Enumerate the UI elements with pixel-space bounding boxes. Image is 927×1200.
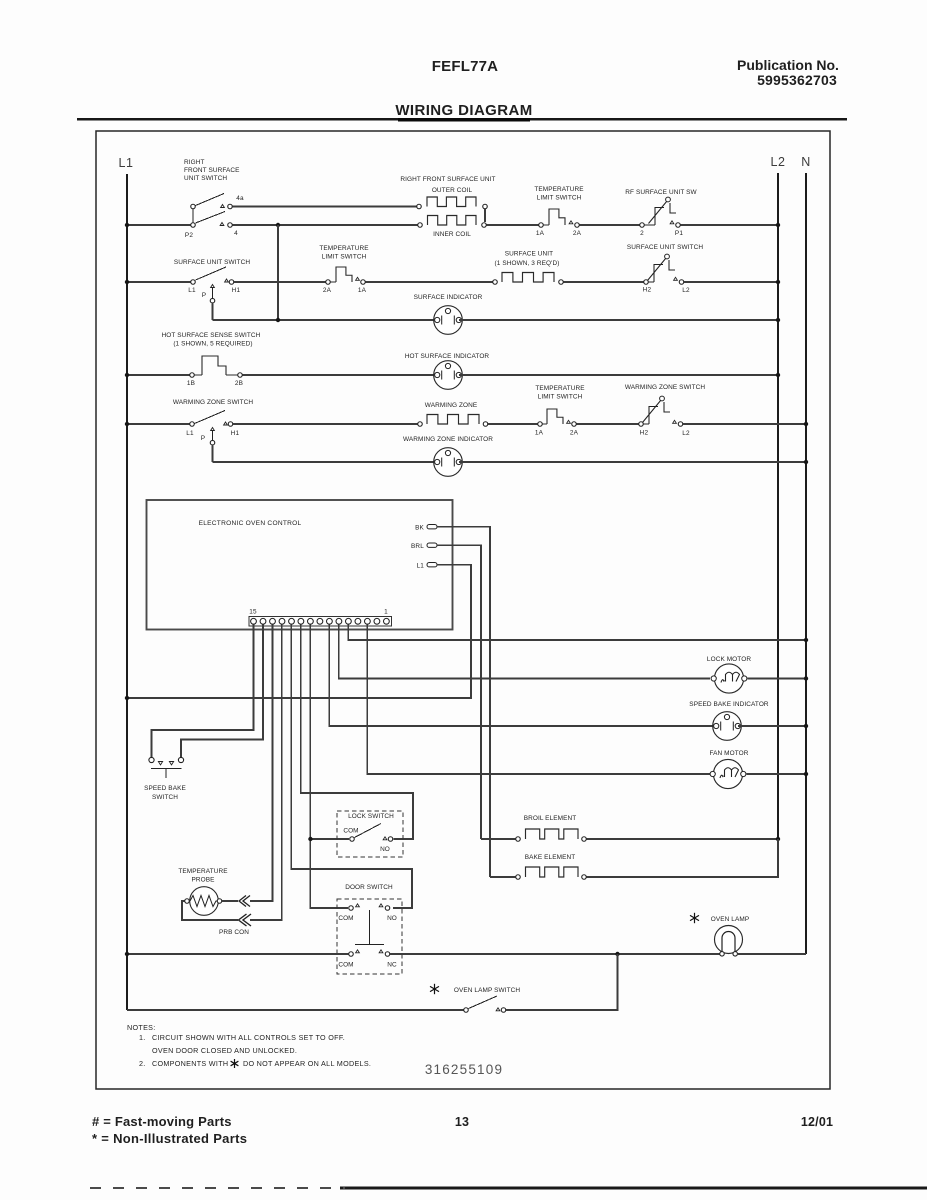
svg-text:P1: P1 <box>675 230 683 237</box>
wire row4 L1 bus to switch <box>127 423 189 425</box>
connector PRB CON upper chevron <box>239 896 250 907</box>
terminal strip <box>249 617 392 627</box>
motor fan motor <box>713 759 742 788</box>
wire L1 bus <box>126 174 128 1010</box>
svg-text:FEFL77A: FEFL77A <box>432 58 498 75</box>
svg-text:4a: 4a <box>236 195 244 202</box>
svg-text:NOTES:: NOTES: <box>127 1023 156 1032</box>
svg-text:RF SURFACE UNIT SW: RF SURFACE UNIT SW <box>625 189 697 196</box>
svg-text:P: P <box>201 435 206 442</box>
svg-text:4: 4 <box>234 230 238 237</box>
resistor bake element <box>516 875 521 880</box>
svg-text:H1: H1 <box>231 430 240 437</box>
svg-text:HOT SURFACE INDICATOR: HOT SURFACE INDICATOR <box>405 353 490 360</box>
svg-text:N: N <box>801 155 811 169</box>
wire row2 L1 bus to switch <box>127 281 190 283</box>
diagram border <box>96 131 830 1089</box>
wire P contact to warming indicator row <box>212 445 214 462</box>
svg-text:PROBE: PROBE <box>191 877 215 884</box>
wire indicator row right to L2 <box>459 319 778 321</box>
wire row1 L1 to P2 <box>127 224 191 226</box>
switch door switch upper contacts <box>349 906 354 911</box>
svg-text:2A: 2A <box>323 287 332 294</box>
svg-text:1.: 1. <box>139 1033 146 1042</box>
switch door switch lower contacts <box>349 952 354 957</box>
wire lamp row L1 bus to door switch <box>127 953 348 955</box>
svg-text:LIMIT SWITCH: LIMIT SWITCH <box>538 394 583 401</box>
svg-text:PRB CON: PRB CON <box>219 929 249 936</box>
svg-text:* = Non-Illustrated Parts: * = Non-Illustrated Parts <box>92 1131 247 1146</box>
wire indicator row left <box>278 319 437 321</box>
svg-text:SPEED BAKE: SPEED BAKE <box>144 785 186 792</box>
wire junction down to indicator row <box>277 225 279 320</box>
connector PRB CON lower chevron <box>239 914 252 926</box>
svg-text:NO: NO <box>387 915 397 922</box>
wire L2 bus <box>777 173 779 839</box>
lamp warming zone indicator <box>434 448 463 477</box>
wire H1 to warming zone coil <box>233 423 417 425</box>
lamp hot surface indicator <box>434 361 463 390</box>
svg-text:1B: 1B <box>187 380 195 387</box>
lamp speed bake indicator <box>713 712 742 741</box>
contact P stub row2 <box>211 285 215 288</box>
svg-text:2.: 2. <box>139 1059 146 1068</box>
svg-text:2: 2 <box>640 230 644 237</box>
svg-text:1A: 1A <box>535 430 544 437</box>
svg-text:TEMPERATURE: TEMPERATURE <box>319 245 369 252</box>
svg-text:NC: NC <box>387 962 397 969</box>
svg-text:13: 13 <box>455 1115 469 1129</box>
wire P1 to L2 bus <box>681 224 778 226</box>
motor lock motor <box>714 664 743 693</box>
svg-text:RIGHT FRONT SURFACE UNIT: RIGHT FRONT SURFACE UNIT <box>400 176 495 183</box>
svg-text:L2: L2 <box>682 430 690 437</box>
wire 4 to inner coil <box>233 224 418 226</box>
svg-text:UNIT SWITCH: UNIT SWITCH <box>184 175 227 182</box>
svg-text:LOCK SWITCH: LOCK SWITCH <box>348 813 394 820</box>
lamp oven lamp <box>715 926 743 954</box>
svg-text:HOT SURFACE SENSE SWITCH: HOT SURFACE SENSE SWITCH <box>162 332 261 339</box>
wire door switch NC to oven lamp <box>390 953 719 955</box>
switch temperature limit switch row4 <box>538 422 543 427</box>
svg-text:COM: COM <box>338 962 353 969</box>
svg-text:1: 1 <box>384 609 388 616</box>
wire row3 to L2 bus <box>459 374 778 376</box>
wire BK to bake element <box>490 876 515 878</box>
terminal pin 12 <box>279 618 285 624</box>
svg-text:WARMING ZONE SWITCH: WARMING ZONE SWITCH <box>625 384 706 391</box>
terminal pin 13 <box>270 618 276 624</box>
wire bake element to L2 junction <box>587 839 778 877</box>
title rule <box>77 118 847 120</box>
switch oven lamp switch label <box>434 984 436 994</box>
wire pin15 to speed bake switch <box>152 624 254 757</box>
wire BRL output <box>437 545 481 839</box>
contact P stub row4 <box>211 428 215 431</box>
svg-text:LIMIT SWITCH: LIMIT SWITCH <box>322 254 367 261</box>
svg-text:WIRING DIAGRAM: WIRING DIAGRAM <box>395 102 532 119</box>
terminal pin 2 <box>374 618 380 624</box>
footer rule <box>340 1187 927 1190</box>
switch warming zone switch left <box>190 422 195 427</box>
svg-text:WARMING ZONE: WARMING ZONE <box>425 402 478 409</box>
svg-text:INNER COIL: INNER COIL <box>433 231 471 238</box>
junction row1 to surface indicator feed <box>276 223 280 227</box>
svg-text:L1: L1 <box>186 430 194 437</box>
svg-text:12/01: 12/01 <box>801 1115 833 1129</box>
wire pin5 to N bus <box>348 624 806 640</box>
wire row2 to L2 bus <box>684 281 778 283</box>
svg-text:NO: NO <box>380 846 390 853</box>
svg-text:FAN MOTOR: FAN MOTOR <box>709 750 748 757</box>
svg-text:2B: 2B <box>235 380 243 387</box>
svg-text:COMPONENTS WITH: COMPONENTS WITH <box>152 1059 228 1068</box>
wire pin3 to fan motor <box>367 624 710 774</box>
electronic oven control box <box>147 500 453 630</box>
terminal pin 7 <box>327 618 333 624</box>
terminal pin 6 <box>336 618 342 624</box>
svg-text:TEMPERATURE: TEMPERATURE <box>178 868 228 875</box>
svg-text:# = Fast-moving Parts: # = Fast-moving Parts <box>92 1114 232 1129</box>
svg-text:LOCK MOTOR: LOCK MOTOR <box>707 656 751 663</box>
svg-text:FRONT SURFACE: FRONT SURFACE <box>184 167 240 174</box>
junction oven lamp switch branch <box>615 952 619 956</box>
wire broil element to L2 bus <box>587 838 778 840</box>
wire pin7 to speed bake indicator <box>329 624 713 726</box>
wire pin11 to door switch NO <box>291 624 412 908</box>
wire speed bake indicator to N bus <box>738 725 806 727</box>
wire warming indicator to N bus <box>459 461 806 463</box>
svg-text:P2: P2 <box>185 232 193 239</box>
svg-text:LIMIT SWITCH: LIMIT SWITCH <box>537 195 582 202</box>
svg-text:SURFACE UNIT SWITCH: SURFACE UNIT SWITCH <box>627 244 703 251</box>
wire coil to H2 row2 <box>564 281 644 283</box>
svg-text:L1: L1 <box>416 563 424 570</box>
svg-text:SURFACE UNIT: SURFACE UNIT <box>505 251 553 258</box>
wire pin6 to lock motor <box>339 624 710 678</box>
svg-text:(1 SHOWN, 5 REQUIRED): (1 SHOWN, 5 REQUIRED) <box>173 341 252 348</box>
terminal pin 14 <box>260 618 266 624</box>
terminal pin 8 <box>317 618 323 624</box>
lamp surface indicator <box>434 306 463 335</box>
svg-text:OVEN DOOR CLOSED AND UNLOCKED.: OVEN DOOR CLOSED AND UNLOCKED. <box>152 1046 297 1055</box>
svg-text:2A: 2A <box>570 430 579 437</box>
svg-text:TEMPERATURE: TEMPERATURE <box>534 186 584 193</box>
svg-text:SPEED BAKE INDICATOR: SPEED BAKE INDICATOR <box>689 701 769 708</box>
svg-text:(1 SHOWN, 3 REQ'D): (1 SHOWN, 3 REQ'D) <box>495 260 560 267</box>
svg-text:OUTER COIL: OUTER COIL <box>432 187 473 194</box>
svg-text:H2: H2 <box>640 430 649 437</box>
wire L1 output to L1 bus <box>127 565 471 698</box>
resistor inner coil <box>418 223 423 228</box>
svg-text:P: P <box>202 292 207 299</box>
wire pin10 to lock switch NO <box>301 624 413 839</box>
terminal pin 4 <box>355 618 361 624</box>
wire N bus <box>805 173 807 954</box>
wire probe left to lower run <box>182 901 238 920</box>
svg-text:TEMPERATURE: TEMPERATURE <box>535 385 585 392</box>
terminal pin 11 <box>289 618 295 624</box>
wire oven lamp switch to junction <box>506 954 617 1010</box>
svg-text:SURFACE INDICATOR: SURFACE INDICATOR <box>414 294 483 301</box>
svg-text:DOOR SWITCH: DOOR SWITCH <box>345 884 393 891</box>
terminal pin 15 <box>251 618 257 624</box>
wire inner coil to 1A <box>487 224 539 226</box>
wire outer coil to inner junction <box>484 209 486 222</box>
svg-text:OVEN LAMP SWITCH: OVEN LAMP SWITCH <box>454 987 520 994</box>
switch hot surface sense switch <box>190 373 195 378</box>
svg-text:COM: COM <box>343 828 358 835</box>
terminal pin 10 <box>298 618 304 624</box>
svg-text:L2: L2 <box>682 287 690 294</box>
svg-text:BRL: BRL <box>411 543 424 550</box>
wire oven lamp to N bus <box>738 953 806 955</box>
svg-text:SWITCH: SWITCH <box>152 794 178 801</box>
wire P contact to indicator row <box>212 303 214 320</box>
switch surface unit switch right <box>644 280 649 285</box>
svg-text:Publication No.: Publication No. <box>737 57 839 73</box>
wire 4a to outer coil <box>233 206 417 208</box>
svg-text:2A: 2A <box>573 230 582 237</box>
wire pin14 to speed bake switch <box>181 624 263 757</box>
svg-text:H1: H1 <box>232 287 241 294</box>
wire BRL to broil element <box>481 838 515 840</box>
wire 1A to surface unit coil <box>366 281 493 283</box>
svg-text:RIGHT: RIGHT <box>184 159 205 166</box>
svg-text:L1: L1 <box>188 287 196 294</box>
wire coil to 1A row4 <box>488 423 537 425</box>
svg-text:1A: 1A <box>536 230 545 237</box>
svg-text:WARMING ZONE SWITCH: WARMING ZONE SWITCH <box>173 399 254 406</box>
svg-text:COM: COM <box>338 915 353 922</box>
wire 2A to RF switch <box>580 224 640 226</box>
wire L1 bus to oven lamp switch <box>127 1009 463 1011</box>
svg-text:5995362703: 5995362703 <box>757 72 837 88</box>
switch door switch enclosure <box>337 899 402 974</box>
resistor broil element <box>516 837 521 842</box>
wire pin12 to probe connector <box>250 624 282 920</box>
svg-text:BROIL ELEMENT: BROIL ELEMENT <box>524 815 577 822</box>
switch door switch actuator <box>369 910 371 944</box>
wire BK output <box>437 527 490 877</box>
svg-text:316255109: 316255109 <box>425 1062 503 1077</box>
terminal pin 9 <box>308 618 314 624</box>
svg-text:DO NOT APPEAR ON ALL MODELS.: DO NOT APPEAR ON ALL MODELS. <box>243 1059 371 1068</box>
switch SW1 right front surface unit switch <box>191 204 196 209</box>
svg-text:ELECTRONIC OVEN CONTROL: ELECTRONIC OVEN CONTROL <box>199 520 302 527</box>
wire row4 to N bus <box>683 423 806 425</box>
svg-text:L2: L2 <box>771 155 786 169</box>
wire pin13 to probe connector <box>250 624 272 901</box>
resistor temperature probe <box>190 887 219 916</box>
wire row3 L1 bus to 1B <box>127 374 189 376</box>
svg-text:H2: H2 <box>643 287 652 294</box>
svg-text:WARMING ZONE INDICATOR: WARMING ZONE INDICATOR <box>403 436 493 443</box>
svg-text:15: 15 <box>249 609 257 616</box>
wire fan motor to N bus <box>747 773 807 775</box>
wire 2B to hot surface indicator <box>243 374 437 376</box>
switch warming zone switch right <box>639 422 644 427</box>
wire pin9 to lock switch COM and door switch COM <box>310 624 348 908</box>
switch surface unit switch left <box>191 280 196 285</box>
lamp oven lamp label <box>694 913 696 923</box>
wire H1 to 2A row2 <box>234 281 325 283</box>
wire lock motor to N bus <box>748 678 807 680</box>
svg-text:L1: L1 <box>119 156 134 170</box>
terminal pin 1 <box>384 618 390 624</box>
switch oven lamp switch <box>464 1008 469 1013</box>
terminal pin 3 <box>365 618 371 624</box>
svg-text:1A: 1A <box>358 287 367 294</box>
switch lock switch enclosure <box>337 811 403 857</box>
switch speed bake switch <box>149 757 154 762</box>
svg-text:BAKE ELEMENT: BAKE ELEMENT <box>525 854 576 861</box>
wire 2A to warming switch <box>577 423 639 425</box>
svg-text:SURFACE UNIT SWITCH: SURFACE UNIT SWITCH <box>174 259 250 266</box>
svg-text:OVEN LAMP: OVEN LAMP <box>711 916 749 923</box>
svg-text:CIRCUIT SHOWN WITH ALL CONTROL: CIRCUIT SHOWN WITH ALL CONTROLS SET TO O… <box>152 1033 345 1042</box>
svg-text:BK: BK <box>415 525 424 532</box>
terminal pin 5 <box>346 618 352 624</box>
